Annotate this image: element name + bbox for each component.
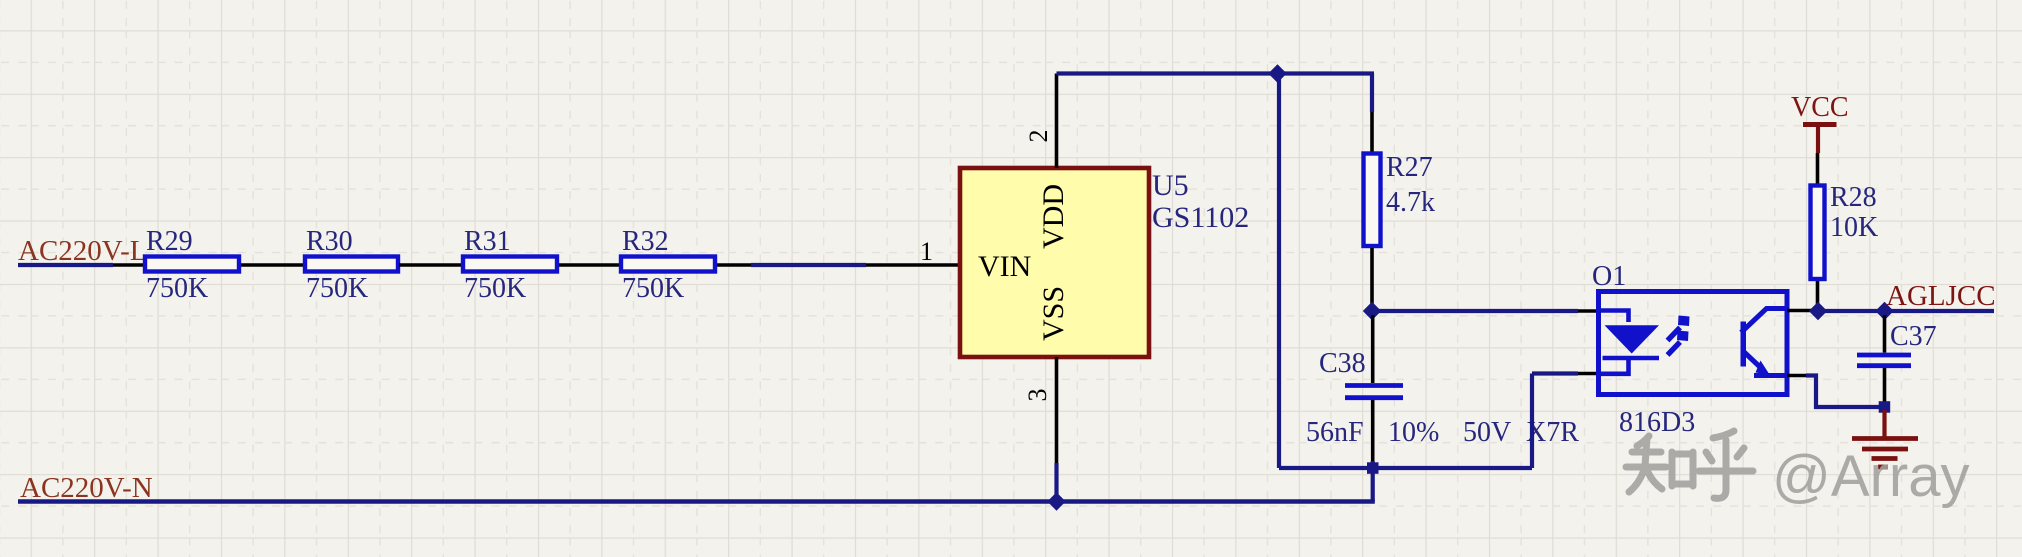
wire (R32 right lead): [717, 263, 751, 267]
pin 1 of U5: [866, 263, 958, 267]
ground symbol: [1852, 410, 1918, 467]
junction C37 bottom / emitter / ground: [1879, 401, 1891, 413]
wire (R28 top lead): [1816, 153, 1820, 184]
svg-text:VSS: VSS: [1037, 286, 1070, 341]
optocoupler O1: [1599, 292, 1788, 395]
wire (R28 bottom lead): [1816, 281, 1820, 311]
resistor R27: [1364, 154, 1381, 247]
light arrows of O1: [1668, 316, 1690, 356]
svg-text:56nF: 56nF: [1306, 417, 1364, 448]
wire net AC220V-N: [18, 499, 1375, 504]
wire collector node to AGLJCC: [1818, 309, 1885, 313]
pin 3 of U5: [1055, 357, 1059, 463]
svg-text:C37: C37: [1890, 321, 1937, 352]
wire U5 pin3 to AC220V-N: [1054, 463, 1058, 502]
svg-text:750K: 750K: [306, 273, 368, 304]
resistor R32: [621, 257, 715, 272]
svg-text:4.7k: 4.7k: [1386, 187, 1435, 218]
svg-text:VCC: VCC: [1791, 92, 1849, 123]
wire net AGLJCC: [1885, 309, 1995, 313]
pin 1 of O1 (anode stub): [1578, 309, 1599, 313]
LED of O1: [1599, 311, 1660, 374]
junction U5 pin 3 on AC220V-N: [1047, 492, 1065, 510]
wire vertical branch x=1279: [1277, 74, 1281, 469]
junction AGLJCC / C37: [1875, 302, 1893, 320]
power symbol VCC: [1791, 92, 1849, 153]
wire C38 bottom to AC220V-N: [1371, 461, 1375, 502]
resistor R29: [145, 257, 239, 272]
wire to opto LED cathode: [1532, 371, 1578, 375]
svg-text:VIN: VIN: [978, 250, 1031, 283]
wire emitter to C37 bottom node: [1806, 376, 1885, 408]
svg-text:GS1102: GS1102: [1152, 201, 1249, 234]
op-amp U5 (GS1102 regulator body): [960, 168, 1149, 357]
svg-text:@Array: @Array: [1772, 444, 1969, 509]
svg-text:VDD: VDD: [1037, 184, 1070, 249]
wire net AC220V-L: [18, 263, 113, 267]
wire (between R30 and R31): [399, 263, 461, 267]
svg-text:816D3: 816D3: [1619, 407, 1695, 438]
wire to U5 pin 1: [751, 263, 866, 267]
svg-text:750K: 750K: [146, 273, 208, 304]
svg-text:750K: 750K: [622, 273, 684, 304]
svg-text:R27: R27: [1386, 152, 1433, 183]
svg-text:2: 2: [1024, 130, 1053, 143]
svg-text:R28: R28: [1830, 182, 1877, 213]
wire (R27 top lead): [1370, 112, 1374, 152]
wire (between R29 and R30): [241, 263, 303, 267]
svg-text:10%: 10%: [1388, 417, 1439, 448]
wire vertical x=1532: [1530, 374, 1534, 469]
pin 4 of O1 (emitter stub): [1787, 374, 1806, 378]
wire horizontal y=468: [1279, 466, 1532, 470]
svg-text:50V: 50V: [1463, 417, 1511, 448]
wire (R29 left lead): [113, 263, 143, 267]
svg-text:750K: 750K: [464, 273, 526, 304]
svg-text:R29: R29: [146, 226, 193, 257]
svg-text:R31: R31: [464, 226, 511, 257]
svg-text:AGLJCC: AGLJCC: [1886, 280, 1996, 312]
svg-text:O1: O1: [1592, 261, 1626, 292]
pin 2 of O1 (cathode stub): [1578, 372, 1599, 376]
junction collector / R28: [1809, 302, 1827, 320]
wire (R27 bottom lead): [1370, 248, 1374, 311]
pin 3 of O1 (collector stub): [1787, 309, 1812, 313]
svg-text:1: 1: [920, 237, 933, 266]
svg-text:R30: R30: [306, 226, 353, 257]
junction R27 / C38 / LED node: [1363, 302, 1381, 320]
svg-text:U5: U5: [1152, 169, 1189, 202]
wire top horizontal (VDD net): [1057, 71, 1375, 75]
junction on top wire: [1268, 64, 1286, 82]
wire (between R31 and R32): [559, 263, 619, 267]
svg-text:C38: C38: [1319, 348, 1366, 379]
phototransistor of O1: [1741, 309, 1788, 376]
capacitor C37: [1857, 315, 1911, 404]
pin 2 of U5: [1055, 74, 1059, 169]
svg-text:R32: R32: [622, 226, 669, 257]
svg-text:10K: 10K: [1830, 212, 1878, 243]
wire to opto LED anode: [1372, 309, 1578, 313]
resistor R30: [305, 257, 398, 272]
svg-text:3: 3: [1023, 389, 1052, 402]
capacitor C38: [1345, 315, 1403, 461]
junction C38 / branch wire: [1367, 462, 1379, 474]
watermark 知乎 @Array: [1626, 431, 1969, 509]
svg-text:AC220V-L: AC220V-L: [18, 235, 147, 267]
wire corner down to R27: [1370, 74, 1374, 113]
resistor R28: [1811, 186, 1825, 280]
resistor R31: [463, 257, 557, 272]
